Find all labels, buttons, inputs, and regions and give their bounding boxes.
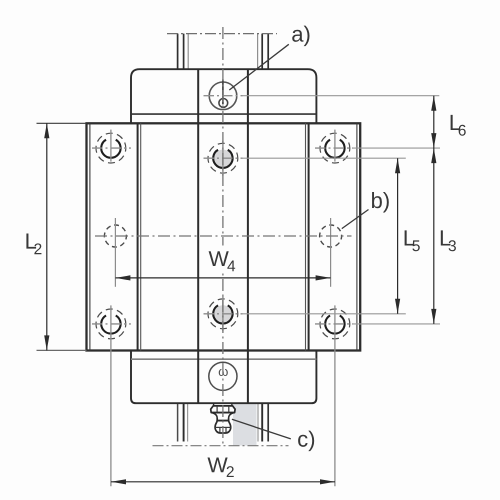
rail bottom right edge lines [258,404,268,442]
mounting hole bottom-right [315,305,440,486]
rail top left edge lines [178,34,189,70]
label c) [298,431,314,451]
dimension L2 extension bottom [37,349,87,351]
mounting hole bottom-left [92,305,131,486]
grease nipple side view [211,403,235,434]
lube port top view circle [209,82,237,110]
rail bottom left edge lines [178,404,188,442]
label W4 halo [205,246,239,274]
label W4 [209,251,229,266]
mounting hole top-right [315,130,440,163]
grease nipple facet lines [215,406,231,432]
dimension W4 line [115,277,330,279]
dimension L6 / L3 line [433,96,435,324]
callout b) leader [342,210,369,229]
lube port inner circle [219,99,228,108]
dimension L2 line [46,123,48,350]
rail top right edge lines [258,34,269,70]
label L5 [405,230,415,245]
plate flange line right [305,123,307,350]
end cap top [131,69,316,123]
side thread hole left (dashed) [104,218,126,287]
center fixing hole bottom [204,296,406,331]
lube port slot line [222,80,224,105]
center fixing hole top [204,141,406,176]
rail slot line left [197,69,199,403]
rail bottom centerline [153,445,289,447]
rail slot line right [247,69,249,403]
label L3 [441,230,451,245]
lube nipple bottom circle [209,362,237,390]
label b) [372,192,389,212]
dimension L5 line [397,158,399,314]
omega mark [219,369,228,376]
side thread hole right (dashed) [320,218,342,287]
end cap top seal line [131,113,316,115]
plate inner edge line left [89,123,91,350]
vertical centerline [222,27,224,447]
mounting hole top-left [92,130,131,163]
label L6 [451,115,461,130]
dimension W2 line [111,481,335,483]
rail top break centerline [167,33,277,35]
label L2 [26,233,36,248]
plate flange line left [137,123,139,350]
L6 extension line from lube port [243,95,440,97]
dimension L2 extension top [37,122,87,124]
horizontal centerline [95,235,352,237]
callout c) leader [232,419,291,439]
callout a) leader [229,44,288,90]
label a) [292,26,309,46]
rail bottom shaded section [233,404,257,446]
label W2 [207,458,227,473]
carriage plate outline [87,123,361,350]
lube port crosshair horizontal [204,95,243,97]
end cap bottom seal line [131,358,316,360]
plate inner edge line right [356,123,358,350]
end cap bottom [131,351,316,404]
